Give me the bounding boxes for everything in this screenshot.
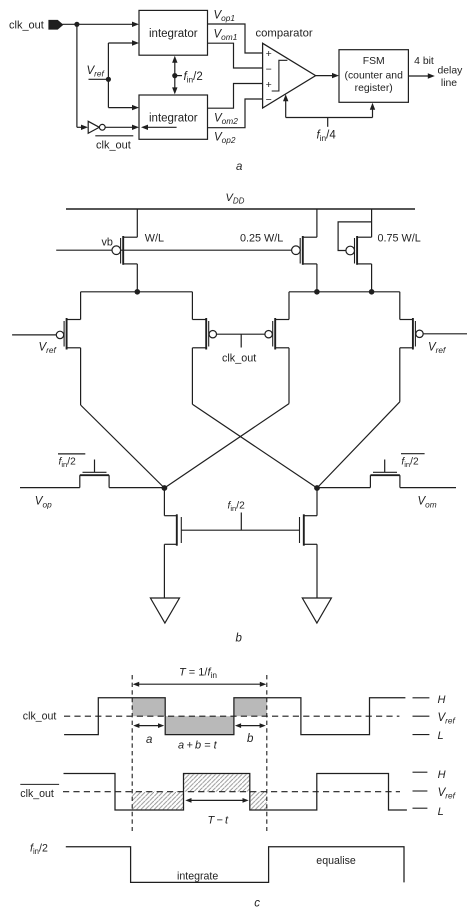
wire left tail node [81, 291, 193, 293]
svg-text:fin/2: fin/2 [184, 71, 203, 85]
wire Vref to integrators [108, 40, 139, 110]
arrow b [235, 723, 266, 728]
svg-text:H: H [438, 769, 446, 781]
node Vref junction [106, 77, 111, 82]
label clk_out-bar wave2 [20, 784, 59, 799]
svg-text:FSM: FSM [363, 56, 385, 67]
ground right [302, 598, 331, 623]
hatched region T-t [184, 774, 250, 792]
input pad clk_out [49, 21, 63, 30]
svg-text:4 bit: 4 bit [414, 56, 434, 67]
svg-text:fin/2: fin/2 [228, 501, 246, 513]
wire comparator to FSM [316, 73, 339, 78]
dashed marker line 2 [266, 675, 268, 831]
svg-text:L: L [438, 806, 444, 818]
hatched region 2 [250, 792, 267, 810]
wire clk_out down to inverter [77, 24, 88, 130]
svg-text:fin/2: fin/2 [401, 457, 419, 469]
label delay line [438, 66, 464, 90]
inverter U1 [88, 121, 105, 133]
svg-text:line: line [441, 78, 457, 89]
svg-text:a: a [236, 161, 242, 173]
ground left [150, 598, 179, 623]
Vref dashed level wave2 [63, 791, 400, 793]
svg-text:H: H [438, 694, 446, 706]
svg-text:equalise: equalise [316, 855, 356, 867]
transistor MN1 [164, 488, 181, 598]
transistor ML2 clk_out left [192, 292, 216, 405]
svg-text:+: + [266, 48, 272, 60]
svg-text:(counter and: (counter and [345, 70, 404, 81]
Vref dashed level wave1 [64, 715, 399, 717]
svg-text:a + b = t: a + b = t [178, 740, 218, 752]
wire clk_out gate net [217, 334, 265, 347]
svg-text:b: b [236, 633, 243, 645]
comparator input signs [266, 48, 272, 106]
wire FSM output [408, 73, 434, 78]
svg-text:−: − [266, 64, 272, 76]
label fin/2-bar left [58, 454, 85, 469]
arrow a [133, 723, 164, 728]
transistor MR1 clk_out right [265, 292, 289, 404]
node left output [162, 485, 168, 491]
comparator U2 [263, 43, 316, 108]
waveform fin/2 [66, 847, 404, 883]
level ticks wave1 [413, 698, 430, 735]
node fin/2 [172, 73, 177, 78]
wire Vref gate right [423, 333, 467, 335]
wire MR1 drain diagonal [164, 404, 289, 488]
wire inverter to integrator2 [105, 125, 139, 130]
svg-text:integrator: integrator [149, 112, 198, 124]
label fin/2 part a [176, 71, 203, 85]
bias wire vb [56, 249, 291, 251]
wire Vop2 [208, 99, 263, 128]
transistor M3 0.75W/L [346, 209, 372, 292]
svg-text:fin/2: fin/2 [59, 457, 77, 469]
svg-text:clk_out: clk_out [23, 710, 57, 722]
net fin/2 tail gates [181, 513, 299, 531]
net fin/4 [283, 94, 375, 127]
hatched region 1 [132, 792, 183, 810]
wire M3 gate to source [338, 222, 372, 251]
svg-text:b: b [247, 733, 254, 745]
label fin/2-bar right [401, 454, 425, 469]
level ticks wave2 [413, 772, 428, 808]
wire MR2 drain diagonal [317, 402, 400, 488]
gray region a [132, 698, 165, 716]
waveform clk_out-bar [64, 774, 407, 811]
transistor ML1 Vref left [56, 292, 80, 405]
period arrow T [133, 682, 267, 687]
svg-text:−: − [266, 94, 272, 106]
svg-text:clk_out: clk_out [9, 20, 44, 32]
svg-text:comparator: comparator [256, 28, 313, 40]
wire Vom1 [208, 43, 263, 68]
svg-text:0.25 W/L: 0.25 W/L [240, 232, 283, 244]
svg-text:a: a [146, 734, 152, 746]
svg-text:delay: delay [438, 66, 464, 77]
integrator block 2 [139, 95, 208, 139]
FSM block [339, 50, 408, 103]
svg-text:clk_out: clk_out [96, 139, 131, 151]
svg-text:fin/2: fin/2 [30, 843, 48, 856]
arrow T-t [185, 798, 248, 803]
wire ML1 drain diagonal [81, 405, 165, 488]
wire Vref [89, 78, 109, 80]
switch SW2 fin/2-bar right [317, 460, 456, 488]
gray region b [234, 698, 267, 716]
svg-text:T − t: T − t [208, 814, 230, 826]
svg-text:L: L [438, 730, 444, 742]
waveform clk_out [64, 698, 405, 735]
reset arrow inside integrator2 [141, 125, 177, 130]
integrator block 1 [139, 10, 208, 55]
wire Vop1 [208, 24, 263, 53]
svg-text:0.75 W/L: 0.75 W/L [378, 232, 421, 244]
hysteresis symbol [272, 60, 288, 91]
wire Vref gate left [12, 334, 56, 336]
node M2 drain [314, 289, 320, 295]
wire clk_out to integrator1 [63, 22, 140, 27]
node clk_out junction [74, 22, 79, 27]
svg-text:vb: vb [102, 236, 113, 248]
node right output [314, 485, 320, 491]
transistor M1 W/L [112, 209, 137, 292]
dashed marker line 1 [131, 675, 133, 831]
gray region a+b [165, 716, 234, 734]
transistor MR2 Vref right [400, 292, 423, 402]
svg-text:c: c [254, 897, 260, 909]
label clk_out-bar [95, 136, 133, 152]
svg-text:clk_out: clk_out [20, 788, 54, 800]
node M3 drain [369, 289, 375, 295]
svg-text:register): register) [355, 83, 393, 94]
VDD rail [66, 208, 415, 210]
wire right tail node [289, 291, 400, 293]
svg-text:fin/4: fin/4 [317, 129, 337, 143]
wire Vom2 [208, 84, 263, 109]
transistor M2 0.25W/L [292, 209, 317, 292]
switch SW1 fin/2-bar left [20, 460, 164, 488]
svg-text:integrator: integrator [149, 28, 198, 40]
node M1 drain [135, 289, 141, 295]
svg-text:clk_out: clk_out [222, 353, 256, 365]
svg-text:W/L: W/L [145, 232, 164, 244]
svg-text:+: + [266, 79, 272, 91]
svg-text:integrate: integrate [177, 870, 218, 882]
transistor MN2 [300, 488, 318, 598]
wire ML2 drain diagonal [192, 404, 317, 488]
net fin/2 between integrators [172, 56, 177, 95]
